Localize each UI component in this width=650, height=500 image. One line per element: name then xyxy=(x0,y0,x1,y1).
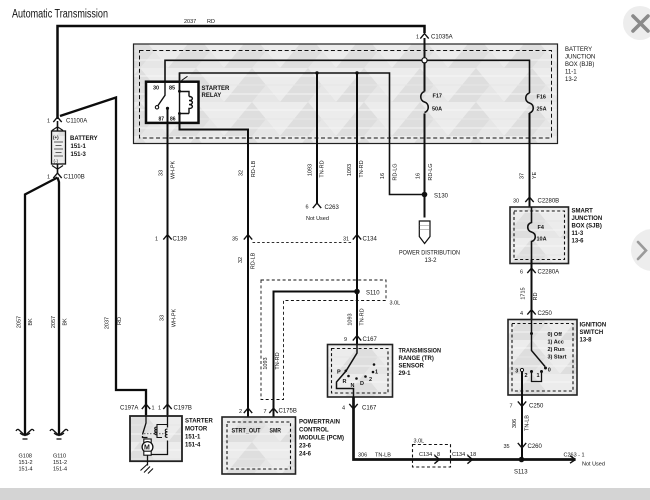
fuse F4 10A xyxy=(528,207,536,260)
connector C134 pin 31 xyxy=(353,235,361,240)
wire: S130 to power distribution xyxy=(424,197,426,218)
svg-text:SENSOR: SENSOR xyxy=(399,364,425,370)
svg-text:C1100A: C1100A xyxy=(66,119,87,125)
svg-text:1) Acc: 1) Acc xyxy=(548,340,564,346)
svg-text:1093: 1093 xyxy=(308,164,314,176)
svg-text:1093: 1093 xyxy=(347,164,353,176)
svg-text:32: 32 xyxy=(239,170,245,176)
ignition switch box xyxy=(508,320,577,396)
wire: C1035A down to F17 and S130 xyxy=(424,38,426,195)
svg-text:(+): (+) xyxy=(53,135,59,140)
connector C1100A xyxy=(53,117,61,122)
wire: 33 WH-PK relay to starter motor xyxy=(167,108,169,416)
svg-text:2: 2 xyxy=(525,373,528,379)
svg-text:N: N xyxy=(351,383,355,389)
splice S110 xyxy=(354,289,360,295)
svg-text:STARTER: STARTER xyxy=(202,86,231,92)
svg-text:2037: 2037 xyxy=(184,19,196,25)
wire: 2057 BK to G108 xyxy=(25,178,58,436)
starter motor M symbol xyxy=(144,439,151,443)
svg-text:1: 1 xyxy=(47,175,50,181)
svg-text:TN-RD: TN-RD xyxy=(275,352,281,369)
svg-text:306: 306 xyxy=(512,419,518,428)
svg-text:SWITCH: SWITCH xyxy=(580,330,604,336)
svg-text:RANGE (TR): RANGE (TR) xyxy=(399,356,434,362)
svg-text:YE: YE xyxy=(532,172,538,180)
svg-text:1: 1 xyxy=(158,406,161,412)
fuse F16 25A xyxy=(526,93,534,113)
svg-text:Not Used: Not Used xyxy=(306,216,329,222)
svg-text:G108: G108 xyxy=(19,454,32,460)
svg-text:4: 4 xyxy=(342,406,345,412)
ground G110 xyxy=(50,429,68,439)
connector C2280A pin 6 xyxy=(531,260,533,320)
svg-text:151-3: 151-3 xyxy=(71,152,87,158)
svg-text:2) Run: 2) Run xyxy=(548,347,566,353)
svg-text:Not Used: Not Used xyxy=(582,462,605,468)
TR sensor position letters xyxy=(337,370,378,390)
svg-text:BOX (BJB): BOX (BJB) xyxy=(565,62,594,68)
battery junction box dashed inner border xyxy=(140,51,552,139)
svg-text:37: 37 xyxy=(520,173,526,179)
svg-text:BK: BK xyxy=(28,318,34,326)
svg-text:POWER DISTRIBUTION: POWER DISTRIBUTION xyxy=(399,251,460,257)
svg-text:1093: 1093 xyxy=(348,313,354,325)
close button X top right xyxy=(623,6,650,40)
wire: 2057 BK to G110 xyxy=(58,178,60,436)
svg-text:151-4: 151-4 xyxy=(185,443,201,449)
transmission range sensor box xyxy=(328,345,393,398)
wire: 2037 RD battery tap to starter motor xyxy=(60,98,146,417)
svg-text:C197A: C197A xyxy=(120,406,138,412)
rotated labels 1715 RD xyxy=(521,287,540,300)
svg-text:C250: C250 xyxy=(538,311,553,317)
svg-text:P: P xyxy=(337,370,341,376)
connector C134 pin 35 xyxy=(244,235,252,240)
svg-text:IGNITION: IGNITION xyxy=(580,323,607,329)
svg-text:50A: 50A xyxy=(432,107,442,113)
starter relay box xyxy=(146,82,199,123)
svg-text:1093: 1093 xyxy=(263,357,269,369)
connector C167 pin 4 xyxy=(349,404,357,409)
relay coil xyxy=(180,73,190,114)
svg-text:CONTROL: CONTROL xyxy=(299,428,329,434)
svg-text:3.0L: 3.0L xyxy=(414,439,425,445)
svg-text:STARTER: STARTER xyxy=(185,419,214,425)
svg-text:33: 33 xyxy=(159,170,165,176)
connector C175B pins 2 and 7 xyxy=(244,408,252,413)
svg-text:16: 16 xyxy=(416,173,422,179)
svg-text:C2280A: C2280A xyxy=(538,270,560,276)
svg-text:151-2: 151-2 xyxy=(53,460,67,466)
svg-text:6: 6 xyxy=(520,270,523,276)
svg-text:(-): (-) xyxy=(54,159,59,164)
wire: 32 RD-LB relay coil to PCM xyxy=(180,114,249,418)
svg-text:G110: G110 xyxy=(53,454,66,460)
svg-text:2057: 2057 xyxy=(17,316,23,328)
svg-text:4: 4 xyxy=(520,311,523,317)
connector C2280B pin 30 xyxy=(525,197,533,202)
svg-text:C167: C167 xyxy=(362,406,377,412)
splice S130 xyxy=(422,192,428,198)
svg-text:RELAY: RELAY xyxy=(202,93,222,99)
svg-text:C139: C139 xyxy=(173,237,188,243)
rotated labels 2057 BK xyxy=(17,309,178,330)
svg-text:C1100B: C1100B xyxy=(64,175,85,181)
svg-text:151-4: 151-4 xyxy=(19,467,33,473)
svg-text:24-6: 24-6 xyxy=(299,452,312,458)
svg-text:C134 - 18: C134 - 18 xyxy=(452,452,476,458)
PCM box xyxy=(222,417,296,474)
svg-text:C175B: C175B xyxy=(279,409,297,415)
svg-text:31: 31 xyxy=(343,237,349,243)
svg-text:30: 30 xyxy=(153,86,159,92)
svg-text:D: D xyxy=(360,381,364,387)
wire: line A node to relay xyxy=(165,60,422,81)
svg-text:0: 0 xyxy=(548,368,551,374)
svg-text:32: 32 xyxy=(238,257,244,263)
svg-text:2: 2 xyxy=(239,409,242,415)
svg-text:RD-LB: RD-LB xyxy=(251,252,257,269)
svg-text:151-1: 151-1 xyxy=(185,435,201,441)
wire: TR sensor to bottom rail 306 TN-LB xyxy=(354,397,576,460)
svg-text:C167: C167 xyxy=(363,337,378,343)
svg-text:30: 30 xyxy=(513,199,519,205)
connector C250 pin 4 xyxy=(527,310,535,315)
svg-text:MODULE (PCM): MODULE (PCM) xyxy=(299,436,344,442)
svg-text:RD: RD xyxy=(117,317,123,325)
svg-text:S110: S110 xyxy=(366,291,380,297)
ignition switch internals xyxy=(532,320,546,367)
wire: 2037 RD battery to C1035A top rail xyxy=(58,26,425,119)
dashed 3.0L box on rail xyxy=(413,445,451,468)
wire: line B relay 85 to taps xyxy=(180,73,426,195)
splice S113 xyxy=(519,457,525,463)
svg-text:WH-PK: WH-PK xyxy=(172,309,178,328)
svg-text:C250: C250 xyxy=(529,404,544,410)
BJB label xyxy=(565,47,595,83)
svg-text:16: 16 xyxy=(380,173,386,179)
wire: 1093 TN-RD to TR sensor xyxy=(356,73,358,345)
svg-text:RD-LB: RD-LB xyxy=(251,160,257,177)
fuse F17 50A xyxy=(421,92,429,113)
svg-text:TRANSMISSION: TRANSMISSION xyxy=(399,349,442,355)
connector C263 pin 6 not used xyxy=(313,203,321,208)
svg-text:TN-RD: TN-RD xyxy=(359,160,365,177)
svg-text:23-6: 23-6 xyxy=(299,444,312,450)
connector C134 pin 8 on rail xyxy=(434,455,439,463)
svg-text:C1035A: C1035A xyxy=(431,35,453,41)
connector C1035A xyxy=(420,34,428,39)
svg-text:33: 33 xyxy=(160,315,166,321)
svg-text:C260: C260 xyxy=(528,444,543,450)
starter relay label xyxy=(182,76,188,80)
connector C134 pin 18 on rail xyxy=(467,455,472,463)
bottom gray band xyxy=(0,488,650,500)
svg-text:F17: F17 xyxy=(433,94,442,100)
relay switch contact xyxy=(158,82,165,106)
connector C250 pin 7 xyxy=(518,401,526,406)
svg-text:JUNCTION: JUNCTION xyxy=(565,55,595,61)
svg-text:RD: RD xyxy=(533,293,539,301)
svg-text:BK: BK xyxy=(63,318,69,326)
svg-text:11-1: 11-1 xyxy=(565,70,577,76)
wire: S110 branch to PCM SMR xyxy=(274,292,358,418)
svg-text:RD-LG: RD-LG xyxy=(428,163,434,180)
svg-text:BATTERY: BATTERY xyxy=(565,47,592,53)
svg-text:C263: C263 xyxy=(325,205,340,211)
node tap TN-RD 1 xyxy=(315,71,318,74)
svg-text:85: 85 xyxy=(169,86,175,92)
svg-text:WH-PK: WH-PK xyxy=(171,161,177,180)
svg-text:TN-RD: TN-RD xyxy=(360,308,366,325)
svg-text:1: 1 xyxy=(155,237,158,243)
svg-text:SMR: SMR xyxy=(270,429,282,435)
svg-text:RD-LG: RD-LG xyxy=(393,163,399,180)
svg-text:JUNCTION: JUNCTION xyxy=(572,216,603,222)
svg-text:1: 1 xyxy=(537,373,540,379)
connector C139 pin 1 xyxy=(163,235,171,240)
svg-text:151-4: 151-4 xyxy=(53,467,67,473)
svg-text:11-3: 11-3 xyxy=(572,231,584,237)
svg-text:35: 35 xyxy=(232,237,238,243)
connector C260 pin 35 xyxy=(518,443,526,448)
svg-text:7: 7 xyxy=(510,404,513,410)
battery junction box (BJB) outer xyxy=(134,44,558,144)
battery xyxy=(52,127,63,169)
connector C197A xyxy=(142,404,150,409)
svg-text:1: 1 xyxy=(152,406,155,412)
svg-text:13-2: 13-2 xyxy=(425,258,438,264)
svg-text:13-2: 13-2 xyxy=(565,77,578,83)
svg-text:3.0L: 3.0L xyxy=(390,301,401,307)
wire: node to F16 branch xyxy=(427,60,530,93)
svg-text:35: 35 xyxy=(504,444,510,450)
connector C1100B xyxy=(53,173,61,178)
svg-text:3: 3 xyxy=(515,369,518,375)
svg-text:3) Start: 3) Start xyxy=(548,355,567,361)
rotated labels 1093 TN-RD to TR xyxy=(263,308,366,369)
next chevron button right xyxy=(631,229,650,271)
svg-text:1: 1 xyxy=(375,370,378,376)
wire battery internal xyxy=(57,121,59,173)
svg-text:S113: S113 xyxy=(514,470,528,476)
wire: 1093 TN-RD to C263 not used xyxy=(316,73,318,203)
svg-text:BATTERY: BATTERY xyxy=(70,136,98,142)
svg-text:C2280B: C2280B xyxy=(538,199,560,205)
svg-text:87: 87 xyxy=(159,117,165,123)
svg-text:2: 2 xyxy=(369,377,372,383)
svg-text:MOTOR: MOTOR xyxy=(185,427,208,433)
svg-text:POWERTRAIN: POWERTRAIN xyxy=(299,420,340,426)
svg-text:C134: C134 xyxy=(363,237,378,243)
svg-text:C134 - 8: C134 - 8 xyxy=(419,452,440,458)
svg-text:9: 9 xyxy=(344,337,347,343)
svg-text:TN-RD: TN-RD xyxy=(320,160,326,177)
svg-text:13-8: 13-8 xyxy=(580,338,593,344)
svg-text:1: 1 xyxy=(416,35,419,41)
svg-text:R: R xyxy=(343,379,347,385)
power distribution banner symbol xyxy=(419,221,430,244)
svg-text:C263 - 1: C263 - 1 xyxy=(564,453,585,459)
svg-text:RD: RD xyxy=(207,19,215,25)
connector C197B xyxy=(163,404,171,409)
svg-text:10A: 10A xyxy=(537,237,547,243)
svg-text:TN-LB: TN-LB xyxy=(525,415,531,431)
svg-text:1: 1 xyxy=(47,119,50,125)
dashed link C134 xyxy=(253,242,352,244)
TR sensor internal path xyxy=(337,345,358,398)
smart junction box SJB xyxy=(510,207,569,264)
rail end arrow C263 pin 1 xyxy=(570,456,576,463)
svg-text:29-1: 29-1 xyxy=(399,371,412,377)
starter motor internals xyxy=(143,416,148,438)
dashed 3.0L region around S110 and SMR wire xyxy=(261,280,386,400)
svg-text:0) Off: 0) Off xyxy=(548,332,563,338)
svg-text:STRT_OUT: STRT_OUT xyxy=(232,429,261,435)
starter motor box xyxy=(130,416,182,461)
svg-text:Automatic Transmission: Automatic Transmission xyxy=(12,9,108,21)
starter motor ground xyxy=(147,455,149,465)
wire: ignition to S113 xyxy=(521,372,523,460)
svg-text:306: 306 xyxy=(358,453,367,459)
connector C167 pin 9 xyxy=(353,336,361,341)
svg-text:BOX (SJB): BOX (SJB) xyxy=(572,224,602,230)
svg-text:151-2: 151-2 xyxy=(19,460,33,466)
svg-text:13-6: 13-6 xyxy=(572,239,585,245)
ground G108 xyxy=(16,429,34,439)
rotated labels 306 TN-LB xyxy=(512,415,531,431)
wire: 37 YE F16 to SJB xyxy=(529,113,531,207)
svg-text:7: 7 xyxy=(264,409,267,415)
node tap TN-RD 2 xyxy=(355,71,358,74)
node circle on BJB feed xyxy=(422,58,427,63)
svg-text:F16: F16 xyxy=(537,95,546,101)
svg-text:151-1: 151-1 xyxy=(71,144,87,150)
rotated wire labels below BJB xyxy=(159,160,539,180)
svg-text:F4: F4 xyxy=(538,225,545,231)
svg-text:6: 6 xyxy=(306,205,309,211)
svg-text:C197B: C197B xyxy=(174,406,192,412)
svg-text:S130: S130 xyxy=(434,194,449,200)
svg-text:2057: 2057 xyxy=(51,316,57,328)
lower rotated labels 32 RD-LB xyxy=(238,252,257,269)
svg-text:86: 86 xyxy=(170,117,176,123)
svg-text:2037: 2037 xyxy=(105,317,111,329)
svg-text:SMART: SMART xyxy=(572,209,594,215)
svg-text:1715: 1715 xyxy=(521,287,527,299)
svg-text:TN-LB: TN-LB xyxy=(375,453,391,459)
svg-text:25A: 25A xyxy=(537,107,547,113)
